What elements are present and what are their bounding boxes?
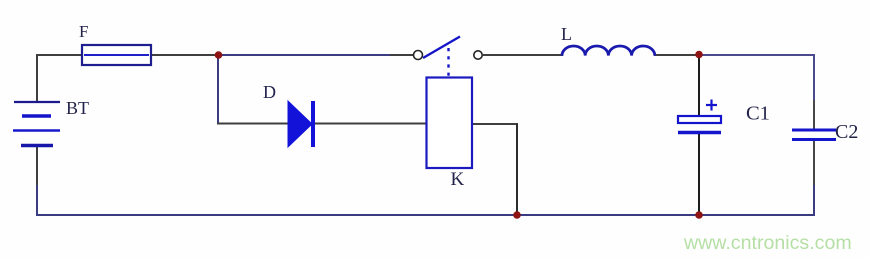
wire: fuse to junction A: [150, 54, 219, 56]
svg-text:L: L: [561, 24, 572, 44]
wire: diode row left segment: [217, 123, 289, 125]
wire: vertical from junction A down to diode row: [217, 55, 219, 125]
switch actuator dotted link: [447, 48, 449, 76]
svg-text:www.cntronics.com: www.cntronics.com: [683, 232, 852, 254]
wire: right vertical above C2: [813, 54, 815, 100]
battery BT plate 1 (long): [14, 101, 60, 103]
capacitor C1 top plate (box): [678, 116, 721, 123]
svg-text:K: K: [451, 169, 465, 190]
svg-text:C2: C2: [835, 121, 858, 143]
wire: switch right terminal to inductor: [483, 54, 563, 56]
fuse F inner line: [84, 54, 149, 56]
C1 polarity plus sign: [706, 100, 717, 111]
node junction C on bottom rail below relay: [513, 211, 521, 219]
wire: diode to relay coil left pin: [314, 123, 428, 125]
wire: relay coil right pin to corner: [470, 123, 518, 125]
relay coil K box: [427, 78, 473, 169]
node junction B (dark red dot): [695, 51, 703, 59]
inductor L coil: [562, 46, 655, 56]
fuse F body: [82, 45, 151, 65]
svg-text:BT: BT: [66, 98, 89, 118]
wire: junction B to top-right corner: [699, 54, 815, 56]
battery BT plate 4 (short thick): [21, 144, 53, 148]
wire: relay right vertical down to bottom rail: [516, 124, 518, 215]
svg-text:C1: C1: [746, 103, 770, 125]
wire: bottom rail: [36, 214, 815, 216]
diode D triangle: [288, 101, 312, 147]
diode D cathode bar: [311, 101, 315, 147]
wire: right vertical below C2: [813, 141, 815, 185]
wire: junction A to switch left terminal: [218, 54, 390, 56]
wire: inductor to junction B: [654, 54, 700, 56]
wire: C1 vertical above: [698, 55, 700, 117]
node junction A (dark red dot): [215, 51, 223, 59]
switch right terminal circle: [474, 51, 482, 59]
battery BT plate 2 (short thick): [22, 114, 51, 118]
svg-text:D: D: [263, 82, 276, 102]
wire: top rail battery corner to fuse: [36, 54, 83, 56]
capacitor C1 bottom plate: [678, 131, 721, 134]
svg-text:F: F: [79, 22, 88, 41]
switch left terminal circle: [414, 51, 423, 60]
switch arm: [423, 37, 460, 59]
capacitor C2 top plate: [792, 129, 836, 132]
node junction D on bottom rail below C1: [695, 211, 703, 219]
wire: top-left vertical from battery to top rail: [36, 54, 38, 103]
battery BT plate 3 (long): [13, 129, 60, 132]
capacitor C2 bottom plate: [792, 138, 836, 141]
wire: C1 vertical below: [698, 134, 700, 215]
wire: left vertical below battery: [36, 146, 38, 185]
